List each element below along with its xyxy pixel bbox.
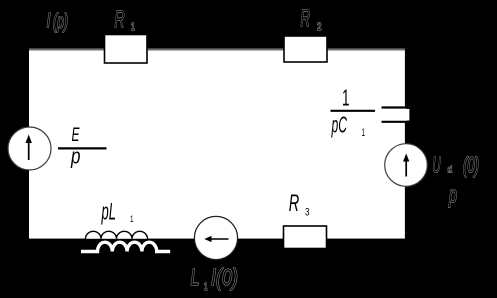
svg-text:I(0): I(0): [211, 264, 238, 290]
wire bottom: [28, 239, 408, 241]
inductor L1 white shadow squiggle: [81, 242, 170, 251]
svg-text:pL: pL: [101, 199, 116, 226]
wire left: [27, 49, 29, 240]
wire right lower (source U to bottom): [405, 185, 407, 240]
resistor R2: [284, 36, 327, 62]
svg-text:(0): (0): [463, 153, 479, 178]
svg-text:1: 1: [342, 85, 350, 111]
svg-text:R: R: [115, 6, 125, 33]
svg-text:1: 1: [204, 281, 208, 293]
svg-text:R: R: [301, 5, 311, 32]
svg-text:p: p: [448, 182, 457, 208]
svg-text:1: 1: [130, 214, 134, 224]
resistor R3: [284, 226, 327, 249]
wire right upper (to capacitor top plate): [405, 49, 407, 108]
svg-text:pC: pC: [331, 112, 347, 138]
svg-text:1: 1: [362, 127, 366, 139]
svg-text:2: 2: [317, 21, 322, 33]
source Uc1(0)/p arrow: [405, 160, 407, 177]
resistor R1: [105, 35, 148, 64]
svg-text:1: 1: [131, 21, 135, 33]
capacitor C1 white gap notch: [405, 109, 410, 121]
inductor L1 bumps: [86, 231, 148, 238]
capacitor C1 bottom plate: [382, 121, 409, 123]
svg-text:p: p: [70, 144, 80, 169]
capacitor C1 top plate: [382, 106, 409, 108]
source E/p circle: [8, 127, 51, 170]
svg-text:L: L: [191, 264, 200, 290]
svg-text:(p): (p): [53, 11, 68, 33]
wire right middle (capacitor bottom plate to source U): [405, 122, 407, 146]
source Uc1(0)/p circle: [385, 144, 428, 187]
svg-text:3: 3: [305, 207, 310, 219]
circuit interior (white loop area): [29, 50, 407, 239]
source E/p arrow: [28, 141, 30, 160]
source L1I(0) circle: [194, 216, 237, 259]
label E/p fraction bar: [58, 147, 107, 149]
svg-text:I: I: [47, 10, 51, 32]
source L1I(0) arrow: [210, 238, 229, 240]
wire top (node between R1 and R2): [28, 48, 407, 50]
label 1/pC1 fraction bar: [331, 110, 376, 112]
svg-text:R: R: [289, 190, 300, 217]
svg-text:c1: c1: [448, 165, 453, 176]
svg-text:U: U: [433, 153, 441, 178]
